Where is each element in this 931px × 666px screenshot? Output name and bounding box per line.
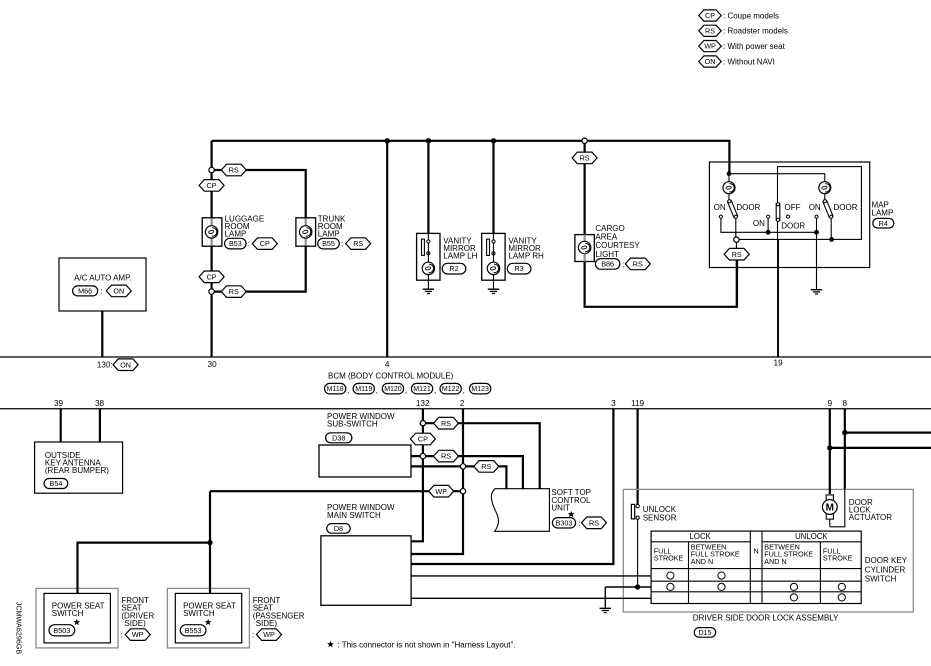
svg-text:,: ,: [347, 386, 349, 395]
svg-text:M121: M121: [413, 386, 431, 393]
svg-text:LOCK: LOCK: [690, 532, 712, 541]
svg-text:B55: B55: [322, 239, 335, 248]
svg-text:RS: RS: [229, 166, 239, 175]
svg-text:B503: B503: [53, 626, 70, 635]
svg-text:119: 119: [631, 399, 644, 408]
svg-text:19: 19: [774, 359, 784, 368]
svg-text::: :: [623, 260, 625, 269]
svg-text:CP: CP: [418, 435, 428, 444]
svg-text:BCM (BODY CONTROL MODULE): BCM (BODY CONTROL MODULE): [328, 372, 454, 381]
svg-text:2: 2: [460, 399, 465, 408]
svg-text::: :: [252, 631, 254, 640]
svg-text::: :: [248, 240, 250, 249]
svg-text:M: M: [826, 503, 834, 514]
svg-text:CP: CP: [705, 11, 715, 20]
svg-text:RS: RS: [580, 153, 590, 162]
svg-text:8: 8: [843, 399, 848, 408]
svg-text:,: ,: [405, 386, 407, 395]
svg-text:B553: B553: [185, 626, 202, 635]
svg-text:LAMP: LAMP: [318, 230, 340, 239]
svg-text:OFF: OFF: [785, 203, 801, 212]
svg-text:DOOR: DOOR: [736, 203, 760, 212]
svg-text:ON: ON: [120, 360, 131, 369]
svg-text:SENSOR: SENSOR: [643, 513, 677, 522]
svg-text:,: ,: [376, 386, 378, 395]
svg-text:RS: RS: [589, 518, 599, 527]
svg-text:AND N: AND N: [764, 557, 786, 566]
svg-text:SUB-SWITCH: SUB-SWITCH: [327, 420, 378, 429]
svg-text:(REAR BUMPER): (REAR BUMPER): [45, 466, 109, 475]
svg-text:: Roadster models: : Roadster models: [723, 27, 788, 36]
svg-text:R4: R4: [879, 219, 888, 228]
svg-text:CP: CP: [260, 239, 270, 248]
svg-text:D15: D15: [698, 628, 711, 637]
svg-text:LAMP LH: LAMP LH: [443, 252, 477, 261]
svg-text:RS: RS: [481, 462, 491, 471]
svg-text:MAIN SWITCH: MAIN SWITCH: [327, 511, 381, 520]
svg-text:WP: WP: [132, 630, 144, 639]
svg-text:ACTUATOR: ACTUATOR: [849, 513, 892, 522]
svg-text:: This connector is not shown: : This connector is not shown in "Harnes…: [338, 640, 516, 649]
svg-text:M123: M123: [471, 386, 489, 393]
svg-text:132: 132: [416, 399, 430, 408]
svg-text:N: N: [753, 547, 758, 556]
svg-text:B54: B54: [50, 479, 63, 488]
svg-text:RS: RS: [705, 26, 715, 35]
svg-text:WP: WP: [435, 487, 447, 496]
svg-text:ON: ON: [705, 57, 716, 66]
svg-text:RS: RS: [441, 419, 451, 428]
svg-text:38: 38: [95, 399, 105, 408]
svg-text:LAMP RH: LAMP RH: [508, 252, 544, 261]
svg-text:4: 4: [385, 360, 390, 369]
svg-text:D38: D38: [332, 433, 345, 442]
svg-text:AND N: AND N: [691, 557, 713, 566]
svg-text:30: 30: [208, 360, 218, 369]
svg-text:D8: D8: [334, 524, 343, 533]
svg-text:M119: M119: [355, 386, 372, 393]
svg-text:WP: WP: [263, 630, 275, 639]
svg-text:: With power seat: : With power seat: [723, 42, 786, 51]
svg-text:,: ,: [434, 386, 436, 395]
svg-text:SWITCH: SWITCH: [183, 609, 215, 618]
svg-text:R2: R2: [449, 264, 458, 273]
svg-text:3: 3: [611, 399, 616, 408]
svg-text:LAMP: LAMP: [225, 230, 247, 239]
svg-text:A/C AUTO AMP.: A/C AUTO AMP.: [74, 273, 132, 282]
svg-text:B86: B86: [601, 259, 614, 268]
svg-text:LIGHT: LIGHT: [595, 250, 619, 259]
svg-text:B303: B303: [556, 518, 573, 527]
svg-text:ON: ON: [714, 203, 726, 212]
svg-text:M120: M120: [384, 386, 402, 393]
svg-text:M66: M66: [78, 286, 92, 295]
svg-text:RS: RS: [353, 239, 363, 248]
svg-text:RS: RS: [229, 287, 239, 296]
svg-text:LAMP: LAMP: [872, 209, 894, 218]
svg-text:M122: M122: [442, 386, 460, 393]
svg-text:JCMWA6296GB: JCMWA6296GB: [15, 602, 24, 655]
svg-text:STROKE: STROKE: [654, 554, 684, 563]
svg-text::: :: [579, 519, 581, 528]
svg-text:130:: 130:: [97, 360, 113, 369]
svg-text:,: ,: [463, 386, 465, 395]
svg-text:DOOR KEY: DOOR KEY: [865, 556, 908, 565]
svg-text:SIDE): SIDE): [124, 619, 146, 628]
svg-text:9: 9: [828, 399, 833, 408]
svg-text:RS: RS: [441, 452, 451, 461]
svg-text::: :: [341, 240, 343, 249]
svg-text:SWITCH: SWITCH: [52, 609, 84, 618]
svg-text:STROKE: STROKE: [823, 554, 853, 563]
svg-text:ON: ON: [113, 286, 124, 295]
svg-text:RS: RS: [732, 250, 742, 259]
svg-text:DOOR: DOOR: [781, 222, 805, 231]
svg-text::: :: [121, 631, 123, 640]
svg-text:SWITCH: SWITCH: [865, 574, 897, 583]
svg-text:M118: M118: [327, 386, 344, 393]
svg-text:SIDE): SIDE): [256, 619, 278, 628]
svg-text:ON: ON: [753, 219, 765, 228]
svg-text:R3: R3: [514, 264, 523, 273]
svg-text:UNIT: UNIT: [551, 503, 570, 512]
svg-text:ON: ON: [809, 203, 821, 212]
svg-text:CP: CP: [207, 181, 217, 190]
svg-text:: Without NAVI: : Without NAVI: [723, 57, 775, 66]
svg-text:: Coupe models: : Coupe models: [723, 11, 779, 20]
svg-text::: :: [100, 287, 102, 296]
svg-text:CP: CP: [207, 272, 217, 281]
svg-text:RS: RS: [633, 259, 643, 268]
svg-text:39: 39: [54, 399, 64, 408]
svg-text:DOOR: DOOR: [834, 203, 858, 212]
svg-text:UNLOCK: UNLOCK: [795, 532, 828, 541]
svg-text:B53: B53: [229, 239, 242, 248]
svg-text:WP: WP: [704, 42, 716, 51]
svg-text:DRIVER SIDE DOOR LOCK ASSEMBLY: DRIVER SIDE DOOR LOCK ASSEMBLY: [693, 614, 839, 623]
svg-text:CYLINDER: CYLINDER: [865, 565, 906, 574]
